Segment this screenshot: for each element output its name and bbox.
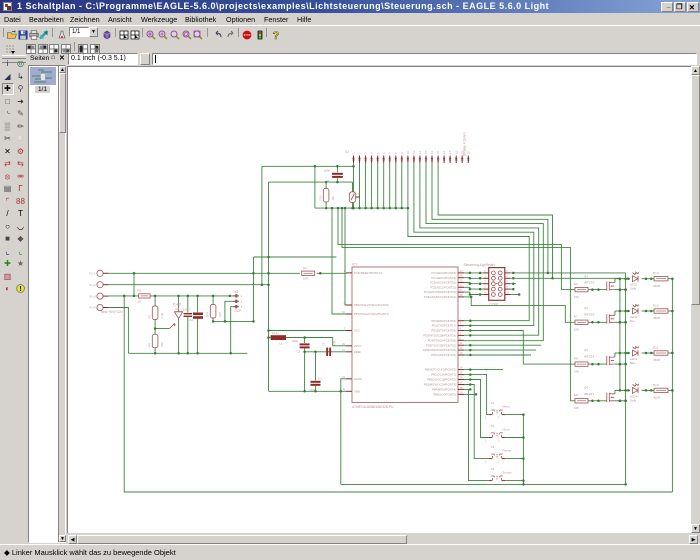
svg-text:PB7(XTAL2/TOSC2/PCINT7): PB7(XTAL2/TOSC2/PCINT7) [354, 312, 389, 316]
schematic text labels [89, 132, 661, 485]
svg-text:ATMEGA48/88/168/328-PU: ATMEGA48/88/168/328-PU [352, 405, 394, 409]
svg-text:PC5(ADC5/SCL/PCINT13): PC5(ADC5/SCL/PCINT13) [424, 295, 456, 299]
svg-text:450R: 450R [653, 358, 661, 362]
svg-text:R7: R7 [574, 315, 578, 319]
resistor R3 [152, 306, 158, 320]
svg-text:1: 1 [485, 460, 487, 464]
svg-text:11: 11 [412, 151, 416, 154]
resistor R15 [323, 188, 329, 202]
wire CON1 pin10 [510, 294, 519, 296]
wire relay vertical B [625, 273, 627, 485]
svg-text:3: 3 [364, 152, 368, 154]
transistor Q2 IRFZ34 [606, 314, 608, 323]
svg-text:5: 5 [376, 152, 380, 154]
Seiten panel [28, 52, 66, 65]
svg-text:PC3(ADC3/PCINT11): PC3(ADC3/PCINT11) [430, 285, 456, 289]
svg-text:24: 24 [460, 274, 463, 278]
wire R5 to Q1 gate [588, 289, 607, 291]
svg-text:PD1(TXD/PCINT17): PD1(TXD/PCINT17) [432, 324, 456, 328]
svg-text:3: 3 [460, 322, 462, 326]
svg-text:28: 28 [460, 293, 463, 297]
svg-text:PB6(XTAL1/TOSC1/PCINT6): PB6(XTAL1/TOSC1/PCINT6) [354, 303, 389, 307]
svg-text:C5: C5 [326, 180, 330, 184]
wire Q1 source [615, 289, 626, 291]
resistor R8 gate [575, 399, 588, 403]
svg-text:10: 10 [406, 150, 410, 154]
wire power section gnd rail [128, 352, 247, 354]
svg-text:PB1(OC1A/PCINT1): PB1(OC1A/PCINT1) [432, 373, 457, 377]
wire link drop [253, 257, 255, 321]
svg-text:5: 5 [460, 331, 462, 335]
wire display pin 7 drop [389, 163, 391, 208]
svg-text:8: 8 [506, 285, 508, 289]
svg-text:Q3: Q3 [584, 348, 588, 352]
connector pad X1-2 [97, 282, 103, 288]
svg-text:PD7(AIN1/PCINT23): PD7(AIN1/PCINT23) [431, 353, 456, 357]
svg-text:2: 2 [460, 317, 462, 321]
svg-text:100n: 100n [332, 340, 336, 346]
resistor R14 [210, 304, 216, 318]
wire feed Q4 gate [342, 208, 570, 401]
svg-text:2: 2 [358, 152, 362, 154]
connector CON1 (2x5 header) [489, 268, 505, 301]
wire S4 column [464, 389, 489, 480]
svg-text:27: 27 [460, 288, 463, 292]
switch S4 Zurück [489, 480, 492, 482]
svg-text:20: 20 [342, 342, 345, 346]
svg-text:PD5(T1/OC0B/PCINT21): PD5(T1/OC0B/PCINT21) [426, 343, 456, 347]
wire S2 column [464, 380, 489, 438]
wire TL431 cathode [178, 296, 180, 312]
wires PC0-PC4 to CON1 [464, 272, 483, 274]
svg-text:PD6(AIN0/OC0A/PCINT22): PD6(AIN0/OC0A/PCINT22) [423, 348, 456, 352]
wire VCC row [269, 330, 347, 332]
resistor R5 gate [575, 287, 588, 291]
svg-text:Menu: Menu [503, 405, 511, 409]
coordinate row [0, 52, 700, 66]
resistor R12 450R [654, 309, 668, 313]
svg-text:17: 17 [460, 381, 463, 385]
wire R6 to Q3 gate [588, 363, 607, 365]
wire X1-3 row [109, 295, 139, 297]
svg-text:14: 14 [460, 366, 463, 370]
wire xtal2 to IC pin10 [332, 208, 346, 314]
wire R14 to DCF pin2 net [213, 320, 253, 322]
title bar [0, 0, 700, 13]
wire L1 row [269, 337, 271, 339]
svg-text:26: 26 [460, 283, 463, 287]
capacitor C6 elco [193, 313, 203, 316]
wire to R15 [325, 182, 327, 188]
svg-text:PB5(SCK/PCINT5): PB5(SCK/PCINT5) [433, 393, 456, 397]
svg-text:Netz +5V/+12V: Netz +5V/+12V [101, 310, 123, 314]
svg-text:15k: 15k [331, 195, 335, 200]
wire to C1 [315, 352, 317, 381]
connector pad X1-4 [97, 304, 103, 310]
svg-text:16: 16 [442, 150, 446, 154]
svg-text:12: 12 [460, 346, 463, 350]
svg-text:100n: 100n [324, 168, 331, 172]
connector X2 display header, 20 pins [353, 156, 355, 164]
switch S2 Hoch [489, 437, 492, 439]
resistor R4 [152, 334, 158, 348]
svg-text:15: 15 [436, 150, 440, 154]
wire AREF row [305, 351, 346, 353]
svg-text:PC6(/RESET/PCINT14): PC6(/RESET/PCINT14) [354, 271, 383, 275]
capacitor C2 100n [326, 348, 328, 356]
svg-text:PD2(INT0/PCINT18): PD2(INT0/PCINT18) [431, 329, 456, 333]
svg-text:VCC: VCC [354, 329, 360, 333]
svg-text:PC4(ADC4/SDA/PCINT12): PC4(ADC4/SDA/PCINT12) [424, 290, 456, 294]
svg-text:AREF: AREF [354, 350, 362, 354]
wire CON1 pin8 [510, 288, 513, 290]
wire display bus line 1 [408, 208, 529, 321]
wire right supply rail [671, 279, 673, 492]
wire TL431 anode [178, 319, 180, 354]
resistor R1 [302, 271, 315, 275]
wire X1-2 row [109, 284, 269, 286]
svg-text:?: ? [273, 30, 280, 40]
svg-text:C2: C2 [322, 342, 326, 346]
wire display vcc rail [262, 165, 354, 167]
horizontal scrollbar [68, 535, 698, 544]
svg-text:8: 8 [394, 152, 398, 154]
toolbar row 1 [0, 25, 700, 40]
wire display bus line 4 [426, 163, 543, 341]
svg-text:3: 3 [484, 274, 486, 278]
svg-text:2: 2 [241, 300, 243, 304]
svg-text:1: 1 [485, 416, 487, 420]
svg-text:PB4(MISO/PCINT4): PB4(MISO/PCINT4) [432, 388, 456, 392]
svg-text:R3: R3 [147, 314, 151, 318]
left tool palette [2, 58, 13, 69]
svg-text:450R: 450R [653, 396, 661, 400]
wire PD6 [464, 349, 536, 351]
capacitor C1 100n [311, 381, 321, 383]
svg-text:R4: R4 [147, 343, 151, 347]
wire +12V to bottom rail [124, 296, 672, 492]
svg-text:18: 18 [454, 150, 458, 154]
svg-text:X1-4: X1-4 [89, 306, 96, 310]
svg-text:IRFZ34: IRFZ34 [584, 313, 594, 317]
canvas [67, 66, 691, 533]
svg-text:2: 2 [498, 460, 500, 464]
svg-text:2: 2 [498, 416, 500, 420]
wire display pin 5 drop [377, 163, 379, 208]
svg-text:TL431: TL431 [173, 303, 182, 307]
svg-text:10K: 10K [574, 328, 579, 332]
wire to AVCC [333, 338, 346, 346]
wire PB0 [464, 369, 503, 371]
wire to C3 [304, 338, 306, 344]
svg-text:R6: R6 [574, 357, 578, 361]
wire rail1 drop to X1-2 net [261, 166, 263, 284]
svg-text:PB0(ICP1/CLKO/PCINT0): PB0(ICP1/CLKO/PCINT0) [425, 368, 456, 372]
wire display pin 8 drop [395, 163, 397, 208]
switch S1 Menu [489, 414, 492, 416]
wire to C5 [336, 166, 338, 172]
wire to resonator [352, 182, 354, 191]
svg-text:25: 25 [460, 279, 463, 283]
svg-text:5: 5 [484, 280, 486, 284]
svg-text:IRFZ34: IRFZ34 [584, 355, 594, 359]
svg-text:PD4(T0/XCK/PCINT20): PD4(T0/XCK/PCINT20) [428, 338, 456, 342]
svg-text:4: 4 [506, 274, 508, 278]
svg-text:100n: 100n [292, 339, 299, 343]
wire main +5V vertical [268, 182, 270, 391]
svg-text:10K: 10K [303, 277, 308, 281]
wire relay vertical A [619, 278, 621, 390]
svg-text:S2: S2 [491, 424, 495, 428]
svg-text:6: 6 [382, 152, 386, 154]
transistor Q4 IRFZ34 [606, 393, 608, 402]
svg-text:Rot: Rot [630, 319, 635, 323]
svg-text:PB3(MOSI/OC2A/PCINT3): PB3(MOSI/OC2A/PCINT3) [424, 383, 456, 387]
svg-text:12: 12 [418, 150, 422, 154]
svg-text:10K: 10K [574, 295, 579, 299]
wire rail3 left riser [314, 166, 316, 208]
wire to C4 [187, 296, 189, 313]
svg-text:C1: C1 [318, 376, 322, 380]
svg-text:23: 23 [460, 269, 463, 273]
svg-text:18: 18 [460, 385, 463, 389]
wire AGND drop [341, 379, 346, 485]
svg-text:Q1: Q1 [584, 274, 588, 278]
svg-text:Zurück: Zurück [503, 471, 513, 475]
svg-text:10K: 10K [160, 342, 164, 347]
svg-text:DCF: DCF [235, 309, 242, 313]
svg-text:R11: R11 [653, 345, 659, 349]
wire Q1 drain row [615, 278, 630, 280]
wire bus to Q4 gate [570, 400, 575, 402]
svg-text:PC2(ADC2/PCINT10): PC2(ADC2/PCINT10) [430, 281, 456, 285]
wire CON1 pin4 [510, 277, 620, 279]
svg-text:1: 1 [485, 482, 487, 486]
wire PC5 to Q2 gate [464, 297, 575, 322]
wire display bus line 6 [438, 163, 552, 278]
svg-text:100n: 100n [183, 307, 190, 311]
svg-text:450R: 450R [653, 316, 661, 320]
svg-text:R2: R2 [138, 289, 142, 293]
svg-text:Runter: Runter [503, 449, 512, 453]
svg-text:Gelb: Gelb [630, 398, 637, 402]
svg-text:2: 2 [506, 269, 508, 273]
svg-text:IRFZ34: IRFZ34 [584, 280, 594, 284]
wire Q2 drain [614, 311, 616, 315]
wire R3/R4 node to TL431 ref [155, 328, 169, 330]
svg-text:6: 6 [506, 280, 508, 284]
svg-text:10uH: 10uH [272, 331, 279, 335]
svg-text:X2: X2 [345, 150, 349, 154]
svg-text:10K: 10K [574, 406, 579, 410]
wire R8 to Q4 gate [588, 400, 607, 402]
svg-text:9: 9 [484, 291, 486, 295]
svg-text:S4: S4 [491, 467, 495, 471]
LED LED3 Blau [632, 350, 638, 356]
svg-text:4: 4 [460, 327, 462, 331]
wire Q4 source [615, 400, 626, 402]
wire bus to Q1 gate [561, 289, 575, 291]
svg-text:1: 1 [485, 439, 487, 443]
wire X1-4 to gnd rail [109, 308, 129, 354]
svg-text:L1: L1 [279, 342, 283, 346]
resistor R13 450R [654, 277, 668, 281]
svg-text:AGND: AGND [354, 377, 362, 381]
op-amp U1: microcontroller IC1 ATMEGA box [352, 267, 458, 403]
svg-text:R12: R12 [653, 303, 659, 307]
wire DCF pin2 [225, 301, 234, 321]
wire display bus line 3 [420, 163, 539, 335]
svg-text:S3: S3 [491, 445, 495, 449]
capacitor C5 100n [332, 173, 343, 175]
status bar [0, 544, 700, 560]
svg-text:X1-2: X1-2 [89, 283, 96, 287]
resistor R2 [139, 294, 150, 298]
svg-text:Display 4 Zeilen: Display 4 Zeilen [463, 132, 467, 156]
wire display bus line 5 [432, 163, 548, 273]
svg-text:IC1: IC1 [352, 262, 357, 266]
wire S3 column [464, 385, 489, 459]
wire DCF pin3 to gnd [231, 307, 234, 354]
svg-text:1K: 1K [138, 300, 142, 304]
svg-text:R1: R1 [303, 266, 307, 270]
svg-text:13: 13 [424, 150, 428, 154]
wire GND rail [269, 390, 347, 392]
IC1 left pins [346, 272, 352, 274]
svg-text:2: 2 [498, 439, 500, 443]
svg-text:AVCC: AVCC [354, 344, 361, 348]
wire display bus line 2 [414, 163, 534, 326]
LED LED2 Rot [632, 308, 638, 314]
svg-text:22: 22 [342, 375, 345, 379]
svg-text:7: 7 [344, 327, 346, 331]
svg-text:1: 1 [241, 294, 243, 298]
wire display pin 3 drop [365, 163, 367, 208]
svg-text:13: 13 [460, 351, 463, 355]
wire link line [254, 256, 337, 258]
wire R7 to Q2 gate [588, 321, 607, 323]
IC1 right pins [458, 272, 464, 274]
wire Q4 drain row [615, 389, 630, 391]
wire CON1 pin6 [510, 283, 516, 285]
wire Q1 drain [614, 279, 616, 283]
connector X2 DCF (3 pins) [233, 295, 238, 297]
svg-text:4: 4 [370, 152, 374, 154]
wire PD2 to Q3 gate [464, 331, 575, 365]
inductor L1 10uH [271, 335, 286, 340]
wire PD7 [464, 354, 531, 356]
connector pad X1-1 [97, 270, 103, 276]
svg-text:10K: 10K [574, 369, 579, 373]
svg-text:6: 6 [460, 336, 462, 340]
wire Q3 drain row [615, 352, 630, 354]
wire to R3 [154, 296, 156, 306]
svg-text:Q2: Q2 [584, 306, 588, 310]
wire +5V row [109, 272, 300, 274]
svg-text:C3: C3 [297, 349, 301, 353]
svg-text:Q4: Q4 [584, 386, 588, 390]
svg-text:R14: R14 [205, 311, 209, 317]
svg-text:9: 9 [400, 152, 404, 154]
wire Q3 source [615, 363, 626, 365]
svg-text:100n: 100n [310, 388, 317, 392]
svg-text:20: 20 [466, 150, 470, 154]
wire display pin 1 drop [353, 163, 355, 208]
svg-text:2: 2 [498, 482, 500, 486]
svg-text:10: 10 [342, 310, 345, 314]
svg-text:21: 21 [342, 348, 345, 352]
svg-text:X2: X2 [235, 290, 239, 294]
svg-text:15: 15 [460, 371, 463, 375]
wire Q2 source [615, 321, 626, 323]
svg-text:Blau: Blau [630, 361, 636, 365]
svg-text:PC0(ADC0/PCINT8): PC0(ADC0/PCINT8) [432, 271, 457, 275]
shunt regulator IC2 TL431 [170, 323, 176, 329]
wire display pin 4 drop [371, 163, 373, 208]
wire CON1 pin2 to Q1 drain [510, 272, 625, 274]
svg-text:R10: R10 [653, 383, 659, 387]
wire Q4 drain [614, 390, 616, 393]
wire display gnd rail [315, 207, 408, 209]
wire to R14 [212, 296, 214, 304]
resistor R7 gate [575, 320, 588, 324]
wire feed Q1 gate [338, 208, 561, 290]
capacitor C3 100n [300, 343, 310, 345]
switch S3 Runter [489, 458, 492, 460]
svg-text:X1-3: X1-3 [89, 294, 96, 298]
wire +5V to R2 [133, 273, 135, 296]
wire display pin 2 drop [359, 163, 361, 208]
svg-text:3.3K: 3.3K [160, 313, 164, 319]
capacitor C4 100n [184, 313, 192, 314]
LED LED4 Gelb [632, 388, 638, 394]
svg-text:8: 8 [344, 387, 346, 391]
resistor R10 450R [654, 388, 668, 392]
wire Q3 drain [614, 353, 616, 357]
wire display pin 6 drop [383, 163, 385, 208]
svg-text:C4: C4 [189, 318, 193, 322]
svg-text:PC1(ADC1/PCINT9): PC1(ADC1/PCINT9) [432, 276, 457, 280]
wire Q2 drain row [615, 310, 630, 312]
vertical scrollbar [691, 66, 700, 533]
svg-text:CON1: CON1 [490, 302, 499, 306]
resistor R6 gate [575, 362, 588, 366]
wire R2 output row [150, 295, 233, 297]
svg-text:R15: R15 [318, 195, 322, 201]
svg-text:14: 14 [430, 150, 434, 154]
svg-text:PD3(INT1/OC2B/PCINT19): PD3(INT1/OC2B/PCINT19) [423, 334, 456, 338]
connector pad X1-3 [97, 293, 103, 299]
wire PB5 [464, 393, 476, 395]
wire xtal1 to IC pin9 [345, 208, 346, 305]
svg-text:10K: 10K [218, 312, 222, 317]
svg-text:S1: S1 [491, 401, 495, 405]
transistor Q3 IRFZ34 [606, 356, 608, 365]
wire to C6 [197, 296, 199, 312]
svg-text:19: 19 [460, 390, 463, 394]
svg-text:11: 11 [460, 341, 463, 345]
svg-text:R13: R13 [653, 271, 659, 275]
toolbar row 2 [0, 40, 700, 52]
svg-text:7: 7 [484, 285, 486, 289]
svg-text:IC2: IC2 [175, 307, 180, 311]
svg-text:16: 16 [460, 376, 463, 380]
svg-text:STOP: STOP [243, 33, 250, 37]
wire switches to gnd [522, 415, 524, 485]
transistor Q1 IRFZ34 [606, 281, 608, 290]
svg-text:Hoch: Hoch [503, 428, 510, 432]
resonator Q1 (3-pin) [349, 192, 355, 203]
